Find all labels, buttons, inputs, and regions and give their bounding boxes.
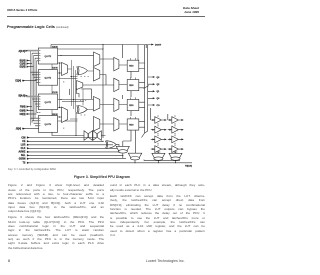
LUT block B3 xyxy=(38,94,57,110)
svg-text:TS[4:0]: TS[4:0] xyxy=(185,164,192,167)
svg-text:D1[4]: D1[4] xyxy=(20,66,26,69)
FF F2 xyxy=(127,80,139,91)
svg-text:J0[4]: J0[4] xyxy=(16,128,22,131)
line1 riser to B4 bottom xyxy=(52,132,76,135)
bus output arrows xyxy=(148,76,160,107)
svg-text:F0[4]: F0[4] xyxy=(20,106,26,109)
input B bus (thick) lower group xyxy=(27,96,39,98)
svg-text:K1 IN: K1 IN xyxy=(52,92,58,94)
xor gate G2 xyxy=(78,106,87,114)
input row y65.2 xyxy=(27,63,32,65)
input pin stubs into B2 xyxy=(31,72,39,82)
svg-text:GSRN: GSRN xyxy=(19,159,26,161)
trapezoid T2 xyxy=(128,153,142,158)
svg-text:Q0: Q0 xyxy=(157,98,161,100)
svg-text:QLUT0: QLUT0 xyxy=(45,124,52,126)
header left title xyxy=(7,8,37,12)
svg-text:LSR: LSR xyxy=(21,145,26,147)
svg-text:QLUT1: QLUT1 xyxy=(45,102,52,104)
FF input mux V1 xyxy=(114,57,119,71)
svg-text:CO: CO xyxy=(157,105,161,107)
LUT block B4 xyxy=(38,116,57,133)
svg-text:C1[4]: C1[4] xyxy=(20,63,26,66)
svg-text:A[4:0]: A[4:0] xyxy=(18,50,25,53)
svg-text:C: C xyxy=(63,82,65,84)
svg-text:REG: REG xyxy=(129,66,134,68)
FF top ticks xyxy=(131,58,136,119)
FIGURE: simplified PFU diagram xyxy=(0,0,213,275)
input row y114 xyxy=(27,113,37,115)
input row y128.6 xyxy=(22,128,39,130)
svg-text:K2 IN: K2 IN xyxy=(52,68,58,70)
input row y60.5 xyxy=(27,60,31,62)
small mux M4 xyxy=(77,81,83,90)
figure caption xyxy=(0,175,204,179)
svg-text:DOUT: DOUT xyxy=(155,45,162,47)
vertical feed lines to FF column xyxy=(68,45,123,139)
svg-text:K0 IN: K0 IN xyxy=(52,114,58,116)
input row y110.3 xyxy=(27,109,34,111)
rows xyxy=(151,115,184,153)
svg-text:B1[4]: B1[4] xyxy=(20,60,26,63)
tall mux M2 xyxy=(94,52,100,67)
tristate common line xyxy=(144,160,180,161)
trapezoid T4 xyxy=(169,153,182,158)
FF F3 xyxy=(127,99,139,110)
FF F1 xyxy=(127,60,139,71)
wires mux outputs to FF muxes xyxy=(100,59,114,124)
vertical output bus xyxy=(142,45,149,138)
LUT pin labels B1 xyxy=(39,51,41,61)
net jog wires (M5 area) xyxy=(62,88,92,101)
svg-text:H0[4]: H0[4] xyxy=(20,113,26,116)
svg-text:ASWE: ASWE xyxy=(18,151,25,154)
tall mux M3 xyxy=(94,68,100,82)
junction dots xyxy=(59,55,123,156)
svg-text:REG: REG xyxy=(129,105,134,107)
LUT block B2 xyxy=(38,70,57,86)
svg-text:Q3: Q3 xyxy=(157,77,161,79)
top output wire xyxy=(51,45,154,61)
key note xyxy=(8,168,56,171)
svg-text:Q1: Q1 xyxy=(157,91,161,93)
svg-text:CE: CE xyxy=(22,141,26,143)
FF input mux V2 xyxy=(114,78,119,91)
gate input width markers xyxy=(80,77,89,116)
footer company xyxy=(146,259,185,263)
section heading xyxy=(7,25,68,29)
vertical inter-wires middle xyxy=(52,60,94,119)
svg-text:C: C xyxy=(63,128,65,130)
svg-text:E1[4]: E1[4] xyxy=(15,80,21,83)
mux M1 xyxy=(62,63,68,76)
wires mux to FF xyxy=(119,65,127,124)
bowtie switch S2 xyxy=(93,131,101,141)
input row y69.8 xyxy=(27,66,34,68)
FF input mux V3 xyxy=(114,98,119,111)
FF F4 xyxy=(127,119,139,130)
xor gate G1 xyxy=(78,67,88,75)
trapezoid T3 xyxy=(152,153,165,158)
xor gate G3 xyxy=(107,141,117,149)
right body column xyxy=(110,183,205,237)
svg-text:Q2: Q2 xyxy=(157,84,161,86)
left body column xyxy=(8,183,104,250)
LUT block B1 xyxy=(38,48,57,64)
LUT pin labels B2 xyxy=(39,72,41,82)
trapezoid T1 xyxy=(116,146,129,151)
FF outputs to bus xyxy=(139,63,145,127)
svg-text:G0[4]: G0[4] xyxy=(20,109,26,112)
input wire bundle vertical lines xyxy=(31,51,37,126)
input pin stubs into B3 xyxy=(31,97,39,107)
FF input mux V4 xyxy=(114,118,119,131)
LUT pin labels B3 xyxy=(39,97,41,107)
input row y106.6 xyxy=(27,106,32,108)
footer page number xyxy=(8,259,10,263)
B1 top output wire xyxy=(58,48,103,50)
svg-text:B[4:0]: B[4:0] xyxy=(18,95,25,98)
svg-text:QLUT2: QLUT2 xyxy=(45,78,52,80)
input row y80.6 xyxy=(22,80,37,82)
input pin stubs into B4 xyxy=(31,112,39,125)
feeds into trapezoids xyxy=(123,141,178,153)
svg-text:REG: REG xyxy=(129,85,134,87)
buffer grid xyxy=(151,108,184,154)
svg-text:CLK: CLK xyxy=(21,148,26,150)
tall mux M7 xyxy=(94,97,100,112)
header rule xyxy=(7,16,205,17)
mux M6 xyxy=(62,107,68,123)
input pin stubs into B1 xyxy=(31,51,39,61)
svg-text:TS: TS xyxy=(22,163,25,165)
FF bottom drops xyxy=(123,71,136,153)
svg-text:QLUT3: QLUT3 xyxy=(45,56,52,58)
top output arrowhead xyxy=(151,44,153,46)
input A bus (thick) xyxy=(27,50,39,52)
svg-text:CIN: CIN xyxy=(21,137,25,139)
svg-text:K3 IN: K3 IN xyxy=(52,46,58,48)
LUT pin labels B4 xyxy=(39,112,41,125)
header right: Data Sheet / June 1999 xyxy=(183,7,199,14)
tall mux M8 xyxy=(94,117,100,132)
svg-text:SEL: SEL xyxy=(21,155,26,157)
svg-text:REG: REG xyxy=(129,124,134,126)
col feed lines xyxy=(151,108,168,120)
control lines xyxy=(18,132,192,167)
bowtie switch S1 xyxy=(84,131,92,141)
wires from LUT outputs to middle xyxy=(58,55,94,121)
